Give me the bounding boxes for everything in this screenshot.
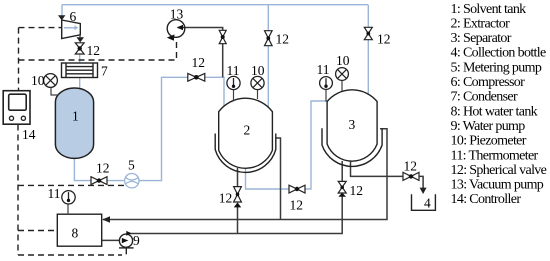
svg-text:9: Water pump: 9: Water pump [451,119,526,134]
wire bus drop to valve above extractor 2 [267,5,269,108]
svg-text:4: Collection bottle: 4: Collection bottle [451,46,547,61]
svg-text:3: Separator: 3: Separator [451,31,512,46]
compressor 6 [62,20,81,39]
wire product line separator to valve to bottle [351,162,404,177]
wire solvent tank outlet to valve and metering pump (blue) [74,158,124,181]
product spherical valve 12 to bottle [403,172,419,180]
svg-text:12: 12 [219,191,233,206]
svg-text:1: Solvent tank: 1: Solvent tank [451,2,527,17]
wire water return line A into hot water tank [103,129,387,220]
wire bus drop to valve above separator 3 [367,5,369,95]
piezometer 10 on extractor [257,90,259,99]
svg-text:7: 7 [101,64,108,79]
dashed control line to metering pump [18,184,127,186]
wire compressor discharge to condenser (blue) [79,54,81,64]
wire CO2 top bus (blue) [62,4,368,6]
piezometer 10 on tank 1 [51,88,57,96]
wire vacuum pump to valve to extractor port (black) [185,28,223,78]
svg-text:10: 10 [251,63,265,78]
arrow compressor inlet [58,15,65,20]
wire extractor jacket return [276,138,281,220]
wire separator bottom stem [341,161,343,181]
wire tank 8 to water pump 9 [102,239,120,241]
wire product valve to bottle drop [419,176,423,188]
svg-text:5: 5 [128,158,135,173]
dashed control line vertical from controller [18,28,20,91]
svg-text:5: Metering pump: 5: Metering pump [451,60,542,75]
svg-text:12: 12 [377,32,391,47]
spherical valve 12 above separator 3 [364,27,372,39]
spherical valve 12 on feed line to extractor [188,73,205,81]
wire extractor 2 to transfer valve to separator 3 (blue) [246,101,329,189]
collection bottle 4 [412,194,436,210]
arrow compressor outlet [79,35,81,38]
svg-text:11: 11 [48,186,61,201]
arrow into tank 8 [102,216,110,223]
thermometer 11 on tank 8 [67,203,69,214]
svg-text:12: 12 [404,159,418,174]
svg-text:6: 6 [70,9,77,24]
svg-text:11: 11 [227,63,240,78]
hot water tank 8 [57,214,101,246]
svg-text:12: 12 [96,160,110,175]
thermometer 11 on separator [325,90,327,102]
extractor bottom spherical valve 12 with arrow [234,187,242,202]
svg-text:6: Compressor: 6: Compressor [451,75,526,90]
svg-text:10: Piezometer: 10: Piezometer [451,134,527,149]
metering pump 5 [125,174,139,188]
wire metering pump to riser (blue) [139,77,224,180]
svg-text:8: Hot water tank: 8: Hot water tank [451,104,538,119]
piezometer 10 on separator [341,80,343,91]
svg-text:14: 14 [22,127,36,142]
svg-text:10: 10 [336,53,350,68]
wire water feed line B from pump 9 [128,197,342,234]
solvent tank 1 [55,88,93,158]
legend [451,2,547,207]
svg-text:12: Spherical valve: 12: Spherical valve [451,163,547,178]
svg-text:13: 13 [170,6,184,21]
wire bus drop to compressor inlet [61,5,63,16]
spherical valve on vacuum line [219,30,226,43]
svg-text:8: 8 [72,225,79,240]
separator bottom spherical valve 12 with arrow [338,181,346,193]
svg-text:12: 12 [290,198,304,213]
svg-text:12: 12 [350,183,364,198]
svg-text:3: 3 [349,117,356,132]
svg-text:2: Extractor: 2: Extractor [451,16,511,31]
dashed control line to compressor [19,27,62,29]
svg-text:12: 12 [192,55,206,70]
svg-text:12: 12 [276,32,290,47]
wire extractor bottom stem [237,168,239,187]
svg-text:2: 2 [244,122,251,137]
spherical valve 12 below compressor [75,43,84,54]
svg-text:13: Vacuum pump: 13: Vacuum pump [451,178,544,193]
extractor 2 vessel [219,98,273,168]
svg-text:11: 11 [317,62,330,77]
svg-text:9: 9 [133,233,140,248]
spherical valve 12 above extractor 2 [265,31,273,46]
spherical valve 12 tank outlet [91,177,107,185]
dashed control line to water pump 9 [18,254,122,256]
dashed control line to hot water tank [18,230,57,232]
svg-text:12: 12 [87,43,101,58]
svg-text:11: Thermometer: 11: Thermometer [451,148,539,163]
arrow into collection bottle [420,188,427,194]
thermometer 11 on extractor [233,90,235,102]
wire water feed branch to extractor bottom valve [237,207,239,234]
svg-text:10: 10 [31,73,45,88]
controller 14 [3,91,30,125]
separator 3 vessel [327,90,377,161]
condenser 7 [62,63,98,78]
water pump 9 [119,234,132,247]
dashed control line to vacuum pump [19,38,177,60]
vacuum pump 13 [167,20,185,38]
svg-text:7: Condenser: 7: Condenser [451,90,518,105]
svg-text:4: 4 [424,196,431,211]
transfer spherical valve 12 between vessels [289,185,305,193]
extractor 2 jacket [215,134,276,173]
separator 3 jacket [322,128,382,166]
wire condenser to solvent tank (blue) [79,77,81,89]
svg-text:14: Controller: 14: Controller [451,192,522,207]
svg-text:1: 1 [72,109,79,124]
